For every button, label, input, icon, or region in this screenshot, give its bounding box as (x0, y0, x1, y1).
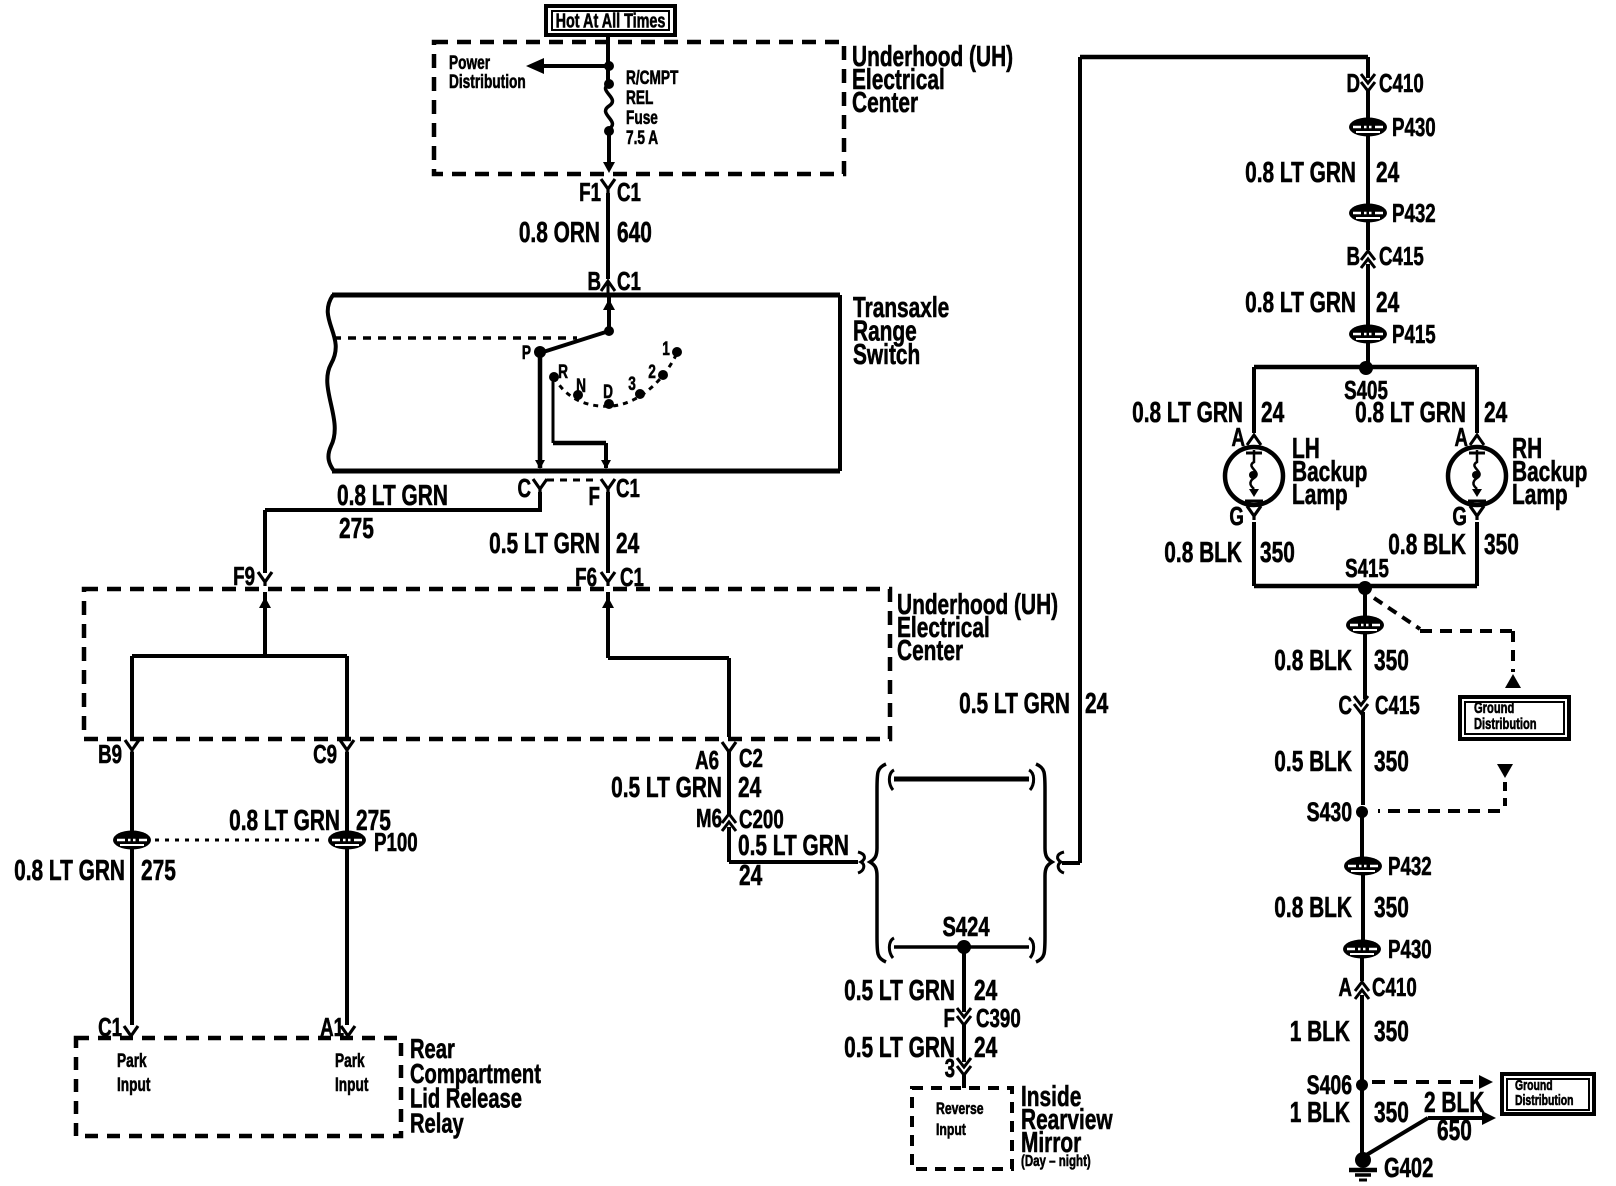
svg-text:A: A (1338, 972, 1352, 1002)
connector F6/C1 (575, 562, 644, 592)
wire B9 down to relay (130, 752, 134, 1025)
wire - power distribution arrow (526, 58, 609, 74)
label Inside Rearview Mirror (1021, 1081, 1113, 1170)
connector G LH (1229, 501, 1261, 531)
wire to C410 (1360, 958, 1364, 981)
wire S424 down to mirror (962, 947, 966, 1012)
svg-text:D: D (603, 381, 613, 403)
connector C9 (313, 739, 354, 769)
grommet P415 (1349, 319, 1436, 349)
svg-text:A6: A6 (695, 745, 719, 775)
svg-text:S415: S415 (1345, 553, 1389, 583)
svg-text:0.8 LT GRN: 0.8 LT GRN (1245, 287, 1356, 319)
dashed branch S415 to ground distribution 1 (1374, 598, 1521, 688)
label 0.5 LT GRN 24 (A6) (611, 772, 761, 804)
svg-text:G: G (1229, 501, 1244, 531)
connector C below switch (517, 473, 547, 503)
rear compartment lid release relay box (dashed) (76, 1038, 401, 1136)
gear position labels (558, 338, 670, 403)
connector A6/C2 (695, 742, 763, 775)
connector C1 dashed tie (547, 479, 595, 482)
label Rear Compartment Lid Release Relay (410, 1034, 541, 1139)
connector A RH lamp (1454, 422, 1484, 452)
svg-text:C: C (1338, 690, 1352, 720)
svg-text:0.5 LT GRN: 0.5 LT GRN (611, 772, 722, 804)
wire S405 to RH lamp (1355, 367, 1507, 433)
svg-text:0.8 BLK: 0.8 BLK (1274, 645, 1352, 677)
wire pole R to F (553, 379, 611, 469)
svg-text:7.5 A: 7.5 A (626, 127, 658, 149)
connector A1 relay (320, 1012, 355, 1042)
svg-text:1 BLK: 1 BLK (1290, 1097, 1350, 1129)
wire to P430 (1366, 90, 1370, 118)
transaxle range switch box (327, 295, 840, 471)
svg-text:P432: P432 (1388, 851, 1432, 881)
connector B9 (98, 739, 139, 769)
svg-text:C410: C410 (1379, 68, 1424, 98)
svg-text:350: 350 (1374, 746, 1409, 778)
wire pole P down to C (535, 352, 545, 469)
wire top run to D/C410 (1080, 55, 1368, 60)
wire 0.8 BLK 350 (below S415) (1274, 634, 1409, 699)
wire 1 BLK 350 (upper) (1290, 995, 1409, 1085)
svg-text:0.5 BLK: 0.5 BLK (1274, 746, 1352, 778)
svg-text:0.8 LT GRN: 0.8 LT GRN (14, 855, 125, 887)
wire 0.8 ORN 640 (519, 193, 652, 279)
wire 0.5 BLK 350 (1274, 712, 1409, 805)
svg-text:24: 24 (616, 528, 639, 560)
connector D/C410 (1346, 57, 1423, 98)
svg-text:Ground: Ground (1515, 1077, 1553, 1093)
svg-text:0.8 BLK: 0.8 BLK (1164, 537, 1242, 569)
svg-text:350: 350 (1260, 537, 1295, 569)
underhood electrical center box 1 (dashed) (434, 42, 844, 174)
svg-text:Input: Input (936, 1121, 966, 1139)
svg-text:Input: Input (117, 1074, 151, 1096)
svg-text:Switch: Switch (853, 339, 920, 371)
svg-text:P430: P430 (1392, 112, 1436, 142)
label Park Input (right) (335, 1050, 369, 1096)
ground G402 (1349, 1152, 1433, 1184)
svg-text:C415: C415 (1379, 241, 1424, 271)
svg-text:Distribution: Distribution (1515, 1092, 1574, 1108)
svg-text:24: 24 (738, 772, 761, 804)
svg-text:0.8 BLK: 0.8 BLK (1388, 529, 1466, 561)
svg-text:G402: G402 (1384, 1153, 1433, 1184)
fuse R/CMPT REL 7.5A (604, 79, 614, 160)
connector F9 (233, 561, 272, 591)
svg-text:G: G (1452, 501, 1467, 531)
connector F1/C1 (579, 177, 641, 207)
svg-text:Fuse: Fuse (626, 107, 658, 129)
svg-text:P430: P430 (1388, 934, 1432, 964)
svg-text:Relay: Relay (410, 1108, 464, 1139)
wire C9 down to relay (345, 752, 349, 1025)
svg-text:0.8 BLK: 0.8 BLK (1274, 892, 1352, 924)
ground distribution box 1 (1460, 697, 1569, 739)
label Transaxle Range Switch (853, 292, 949, 371)
wire to mirror 2 (844, 1024, 997, 1064)
label 0.5 LT GRN 24 (S424) (844, 975, 997, 1007)
label R/CMPT REL Fuse 7.5 A (626, 67, 678, 149)
svg-text:Center: Center (852, 87, 918, 119)
svg-text:P415: P415 (1392, 319, 1436, 349)
svg-text:2: 2 (648, 361, 656, 383)
label 0.5 LT GRN 24 (riser) (959, 688, 1108, 720)
harness right exit hook (1058, 852, 1080, 873)
wire 0.8 LT GRN 24 (2) (1245, 264, 1399, 325)
svg-text:C410: C410 (1372, 972, 1417, 1002)
wire RH lamp to S415 (1388, 522, 1519, 586)
svg-text:275: 275 (141, 855, 176, 887)
wire long riser to top (1078, 57, 1082, 863)
svg-text:F: F (944, 1003, 955, 1033)
svg-text:(Day – night): (Day – night) (1021, 1151, 1091, 1169)
wire arrow into box1 bottom edge (603, 150, 615, 173)
svg-text:24: 24 (1261, 397, 1284, 429)
label Power Distribution (449, 52, 526, 93)
svg-text:C2: C2 (739, 743, 763, 773)
node Hot At All Times (power label box) (546, 6, 675, 35)
svg-text:24: 24 (1484, 397, 1507, 429)
svg-text:0.8 LT GRN: 0.8 LT GRN (1355, 397, 1466, 429)
node S415 splice (1254, 553, 1477, 595)
svg-text:C1: C1 (617, 266, 641, 296)
label Park Input (left) (117, 1050, 151, 1096)
svg-text:B: B (1346, 241, 1360, 271)
svg-text:24: 24 (1376, 157, 1399, 189)
svg-text:C1: C1 (616, 473, 640, 503)
svg-text:Park: Park (335, 1050, 365, 1072)
label 0.8 LT GRN 275 (B9 wire) (14, 855, 176, 887)
svg-text:D: D (1346, 68, 1360, 98)
dotted tie between P100 grommets (155, 839, 325, 842)
svg-text:0.8 LT GRN: 0.8 LT GRN (229, 805, 340, 837)
wire to C415 (1366, 222, 1370, 250)
node S430 (1307, 797, 1368, 827)
node S405 splice (1254, 361, 1477, 405)
dashed branch ground distribution to S430 (1378, 764, 1513, 811)
svg-text:Hot At All Times: Hot At All Times (556, 9, 666, 32)
svg-text:F1: F1 (579, 177, 601, 207)
connector pin 3 mirror (945, 1053, 971, 1083)
svg-text:350: 350 (1374, 1097, 1409, 1129)
svg-text:1: 1 (662, 338, 670, 360)
wire - hot feed into UH EC (606, 33, 610, 84)
connector M6/C200 (696, 803, 784, 834)
connector C/C415 (1338, 690, 1419, 720)
label LH Backup Lamp (1292, 433, 1367, 511)
harness top wire (889, 770, 1033, 790)
svg-text:N: N (576, 375, 586, 397)
label Reverse Input (936, 1100, 984, 1139)
svg-text:350: 350 (1374, 645, 1409, 677)
grommet P432 (1349, 198, 1436, 228)
svg-text:F9: F9 (233, 561, 255, 591)
svg-text:B9: B9 (98, 739, 122, 769)
svg-text:Distribution: Distribution (1474, 715, 1537, 732)
svg-text:C: C (517, 473, 531, 503)
wire 2 BLK 650 (1363, 1087, 1496, 1157)
wire 1 BLK 350 (lower) (1290, 1085, 1409, 1158)
gear position dots R N D 3 2 1 (549, 347, 682, 409)
lamp RH backup (1448, 447, 1506, 505)
harness right brace (1036, 764, 1052, 962)
svg-text:0.5 LT GRN: 0.5 LT GRN (844, 1032, 955, 1064)
svg-text:24: 24 (1376, 287, 1399, 319)
svg-text:F: F (589, 481, 600, 511)
svg-text:24: 24 (739, 860, 762, 892)
svg-text:R/CMPT: R/CMPT (626, 67, 678, 89)
grommet P430 (1349, 112, 1436, 142)
wire A6 down (727, 752, 731, 814)
svg-text:275: 275 (339, 513, 374, 545)
svg-text:0.8 LT GRN: 0.8 LT GRN (337, 480, 448, 512)
svg-text:Reverse: Reverse (936, 1100, 984, 1118)
svg-text:0.8 LT GRN: 0.8 LT GRN (1132, 397, 1243, 429)
harness bottom wire (889, 938, 1033, 958)
svg-text:0.5 LT GRN: 0.5 LT GRN (489, 528, 600, 560)
connector F/C390 (944, 1003, 1021, 1033)
wire LH lamp to S415 (1164, 522, 1295, 586)
svg-text:0.5 LT GRN: 0.5 LT GRN (959, 688, 1070, 720)
wire S415 down (1363, 588, 1367, 617)
svg-text:Input: Input (335, 1074, 369, 1096)
svg-text:M6: M6 (696, 803, 722, 833)
connector B/C1 into switch (587, 266, 640, 296)
label Underhood (UH) Electrical Center (middle) (897, 589, 1058, 667)
wire bus to B9 and C9 (132, 656, 347, 737)
svg-text:R: R (558, 361, 568, 383)
inside rearview mirror box (dashed) (912, 1088, 1012, 1169)
label 0.8 LT GRN 275 (C9 wire) (229, 805, 391, 837)
switch arm B to P (540, 331, 609, 353)
svg-text:650: 650 (1437, 1115, 1472, 1147)
wire F6 to A6 (608, 658, 729, 737)
svg-text:Park: Park (117, 1050, 147, 1072)
svg-text:640: 640 (617, 217, 652, 249)
svg-text:3: 3 (628, 373, 636, 395)
node junction to power distribution arrow (604, 61, 614, 71)
svg-text:Center: Center (897, 635, 963, 667)
svg-text:P100: P100 (374, 827, 418, 857)
svg-text:C1: C1 (617, 177, 641, 207)
svg-text:S424: S424 (942, 912, 989, 943)
grommet P100 right (328, 827, 418, 857)
wire to S405 (1366, 343, 1370, 367)
grommet P100 left (113, 831, 151, 850)
grommet P432 lower (1344, 851, 1432, 881)
grommet P430 lower (1343, 934, 1432, 964)
svg-text:350: 350 (1484, 529, 1519, 561)
connector G RH (1452, 501, 1484, 531)
svg-text:B: B (587, 266, 601, 296)
connector A/C410 (1338, 972, 1416, 1002)
node S406 (1307, 1070, 1368, 1100)
label 0.5 LT GRN 24 (to harness) (738, 830, 849, 892)
dashed line to P contact (333, 336, 577, 340)
wire B entry inside switch (603, 295, 615, 336)
svg-text:0.5 LT GRN: 0.5 LT GRN (844, 975, 955, 1007)
svg-text:S430: S430 (1307, 797, 1352, 827)
svg-text:P432: P432 (1392, 198, 1436, 228)
svg-text:P: P (522, 342, 531, 364)
node P contact (522, 342, 546, 364)
connector F/C1 below switch (589, 473, 640, 511)
wire S430 to P432 (1360, 812, 1364, 858)
svg-text:C415: C415 (1375, 690, 1420, 720)
wire 0.8 LT GRN 275 from C (265, 480, 542, 573)
wire F6 leg inside box2 (602, 592, 614, 658)
lamp LH backup (1225, 447, 1283, 505)
wire M6 to harness (729, 827, 864, 873)
wire into mirror box (962, 1074, 966, 1088)
svg-text:Ground: Ground (1474, 699, 1514, 716)
node S424 (942, 912, 989, 954)
wire 0.8 LT GRN 24 (1) (1245, 136, 1399, 204)
grommet below S415 (1346, 616, 1384, 635)
svg-text:S406: S406 (1307, 1070, 1352, 1100)
connector A LH lamp (1231, 422, 1261, 452)
svg-text:24: 24 (1085, 688, 1108, 720)
connector C1 relay (98, 1012, 138, 1042)
svg-text:350: 350 (1374, 1016, 1409, 1048)
svg-text:Lamp: Lamp (1512, 479, 1568, 511)
svg-text:Distribution: Distribution (449, 71, 526, 93)
label Underhood (UH) Electrical Center (top) (852, 41, 1013, 119)
ground distribution box 2 (1502, 1074, 1594, 1114)
connector B/C415 (1346, 241, 1423, 271)
underhood electrical center box 2 (dashed) (84, 589, 890, 739)
dashed branch S406 to ground distribution 2 (1372, 1075, 1493, 1089)
svg-text:REL: REL (626, 87, 653, 109)
harness left brace (870, 764, 886, 962)
svg-text:24: 24 (974, 1032, 997, 1064)
label RH Backup Lamp (1512, 433, 1587, 511)
svg-text:0.8 ORN: 0.8 ORN (519, 217, 600, 249)
svg-text:350: 350 (1374, 892, 1409, 924)
wire 0.5 LT GRN 24 from F (489, 492, 639, 573)
svg-text:Lamp: Lamp (1292, 479, 1348, 511)
svg-text:0.5 LT GRN: 0.5 LT GRN (738, 830, 849, 862)
svg-text:1 BLK: 1 BLK (1290, 1016, 1350, 1048)
wire S405 to LH lamp (1132, 367, 1284, 433)
wire F9 leg inside box2 (259, 592, 271, 656)
wire 0.8 BLK 350 (lower) (1274, 875, 1409, 941)
svg-text:C390: C390 (976, 1003, 1021, 1033)
svg-text:C9: C9 (313, 739, 337, 769)
svg-text:3: 3 (945, 1053, 955, 1083)
svg-text:0.8 LT GRN: 0.8 LT GRN (1245, 157, 1356, 189)
